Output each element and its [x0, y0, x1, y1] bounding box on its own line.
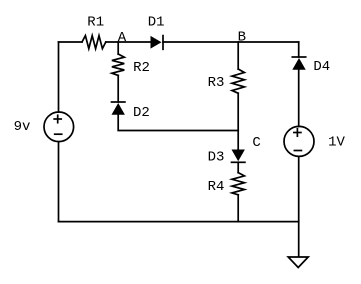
diode D2 [112, 102, 125, 115]
svg-text:D2: D2 [133, 105, 150, 121]
wire D4 to 1V source [298, 70, 300, 127]
wire top-left corner to R1 [59, 41, 83, 43]
svg-text:R1: R1 [87, 15, 104, 31]
svg-text:1V: 1V [328, 135, 345, 151]
wire left column, corner down to 9v source [58, 42, 60, 112]
wire R2 to D2 [117, 75, 119, 102]
svg-text:R3: R3 [208, 75, 225, 91]
svg-text:R2: R2 [133, 60, 150, 76]
voltage source 1V [284, 126, 314, 156]
svg-text:D3: D3 [208, 150, 225, 166]
svg-text:D4: D4 [313, 59, 330, 75]
svg-text:B: B [238, 30, 246, 46]
diode D3 [232, 150, 245, 163]
wire D2 down and across to node C [118, 115, 238, 131]
resistor R2 [112, 54, 124, 75]
wire R1 to node A to D1 [106, 41, 151, 43]
resistor R1 [82, 36, 106, 49]
diode D4 [292, 57, 305, 70]
wire bottom rail [59, 221, 299, 223]
wire top-right corner down to D4 [298, 42, 300, 57]
svg-text:C: C [252, 135, 260, 151]
svg-text:9v: 9v [14, 119, 31, 135]
wire node A stub [117, 42, 119, 54]
wire R4 to bottom rail [237, 195, 239, 222]
wire 1V source down through bottom rail junction to ground [298, 156, 300, 257]
wire R3 to node C to D3 [237, 93, 239, 149]
diode D1 [151, 36, 164, 50]
wire D1 to node B to top-right corner [163, 41, 299, 43]
voltage source 9v [44, 112, 74, 142]
svg-text:D1: D1 [148, 15, 165, 31]
resistor R3 [232, 69, 244, 93]
ground [288, 257, 308, 268]
svg-text:A: A [118, 30, 127, 46]
wire node B down to R3 [237, 42, 239, 69]
wire 9v source to bottom rail [58, 142, 60, 222]
svg-text:R4: R4 [208, 179, 225, 195]
resistor R4 [232, 173, 244, 195]
wire D3 to R4 [237, 162, 239, 172]
